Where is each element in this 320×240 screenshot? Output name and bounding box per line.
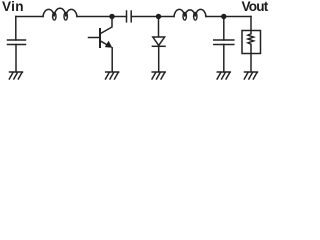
ground G5 <box>244 72 257 79</box>
wire L2 to Vout corner <box>206 16 251 18</box>
wire Vin corner down to C1 <box>15 17 17 41</box>
wire emitter to ground <box>111 48 113 72</box>
svg-text:Vin: Vin <box>2 0 24 14</box>
wire L1 to C2 <box>77 16 127 18</box>
ground G2 <box>106 72 119 79</box>
node junction 2 <box>156 14 161 19</box>
inductor L2 <box>174 9 206 20</box>
wire C2 to L2 <box>131 16 174 18</box>
wire junction 3 down to C3 <box>223 17 225 41</box>
capacitor C1 <box>8 40 26 45</box>
resistor R1 zigzag <box>248 31 254 54</box>
diode D1 triangle <box>153 37 165 45</box>
inductor L1 <box>43 8 77 20</box>
wire collector lead <box>101 17 112 34</box>
capacitor C3 <box>214 40 234 45</box>
wire junction 2 to D1 <box>158 17 160 38</box>
node junction 1 <box>109 14 114 19</box>
ground G1 <box>9 72 22 79</box>
wire base lead <box>89 37 101 39</box>
wire Vin corner to L1 <box>16 16 43 18</box>
ground G3 <box>152 72 165 79</box>
transistor Q1 emitter with arrow <box>101 41 113 48</box>
wire C1 to ground <box>15 45 17 72</box>
wire Vout corner down to R1 <box>250 17 252 31</box>
ground G4 <box>217 72 230 79</box>
capacitor C2 <box>127 11 132 22</box>
svg-text:Vout: Vout <box>242 0 269 14</box>
node junction 3 <box>221 14 226 19</box>
transistor Q1 base bar <box>99 29 101 47</box>
wire C3 to ground <box>223 45 225 72</box>
diode D1 cathode bar <box>152 45 165 47</box>
wire R1 to ground <box>250 54 252 72</box>
wire D1 to ground <box>158 46 160 72</box>
resistor R1 box <box>242 31 261 54</box>
